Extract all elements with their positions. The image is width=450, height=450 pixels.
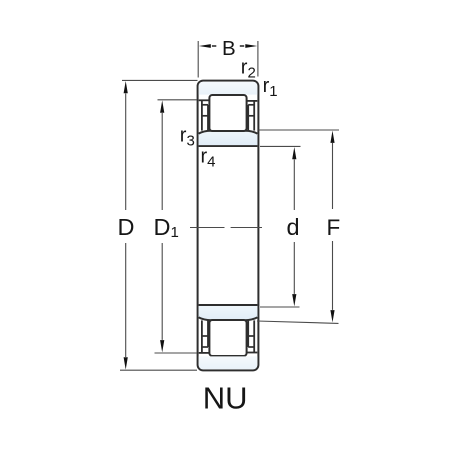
svg-text:B: B: [222, 37, 236, 60]
inner ring band (top, light blue): [199, 131, 258, 145]
inner raceway line (top): [199, 131, 258, 134]
bearing outer silhouette: [198, 81, 259, 371]
svg-text:d: d: [287, 214, 300, 240]
svg-text:D1: D1: [154, 214, 179, 241]
D dimension line: [125, 94, 127, 211]
svg-text:NU: NU: [203, 381, 248, 416]
d extension line top: [260, 145, 301, 147]
svg-text:r3: r3: [180, 124, 195, 149]
B dimension arrows: [199, 44, 211, 48]
d dimension line: [293, 160, 295, 211]
svg-text:F: F: [327, 215, 341, 240]
bore line (top): [199, 145, 258, 147]
cage (bottom right): [253, 320, 255, 352]
cage (top right): [253, 101, 255, 131]
inner ring band (bottom, light blue): [199, 306, 258, 320]
flange lines (top): [199, 99, 210, 101]
bore line (bottom): [199, 304, 258, 306]
roller (bottom): [209, 320, 246, 356]
D1 extension line top: [158, 99, 198, 101]
inner raceway line (bottom): [199, 317, 258, 320]
F extension line bottom: [257, 321, 339, 323]
outer ring top band (light blue): [199, 82, 258, 95]
d extension line bottom: [260, 306, 300, 308]
flange lines (bottom): [199, 352, 210, 354]
svg-text:r1: r1: [263, 75, 278, 100]
D1 extension line bottom: [155, 352, 198, 354]
cage (top left): [201, 100, 203, 130]
cage (bottom left): [201, 320, 203, 353]
D extension line bottom: [120, 369, 197, 371]
svg-text:D: D: [118, 214, 135, 240]
B extension line right: [257, 41, 259, 77]
outer ring bottom band (light blue): [199, 356, 258, 369]
D1 dimension line: [161, 113, 163, 210]
centerline: [190, 227, 225, 229]
D extension line top: [122, 79, 198, 81]
F extension line top: [259, 129, 340, 131]
B extension line left: [197, 41, 199, 78]
roller (top): [209, 95, 246, 131]
F dimension line: [332, 143, 334, 209]
svg-text:r2: r2: [241, 57, 256, 82]
